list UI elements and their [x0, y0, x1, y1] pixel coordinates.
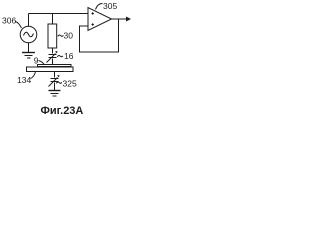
- svg-text:Фиг.23А: Фиг.23А: [41, 105, 84, 117]
- svg-text:16: 16: [64, 51, 74, 61]
- svg-text:9: 9: [34, 56, 39, 66]
- svg-text:325: 325: [63, 78, 77, 88]
- svg-text:134: 134: [17, 75, 31, 85]
- svg-text:306: 306: [2, 15, 16, 25]
- svg-text:30: 30: [64, 30, 74, 40]
- svg-text:305: 305: [103, 1, 117, 11]
